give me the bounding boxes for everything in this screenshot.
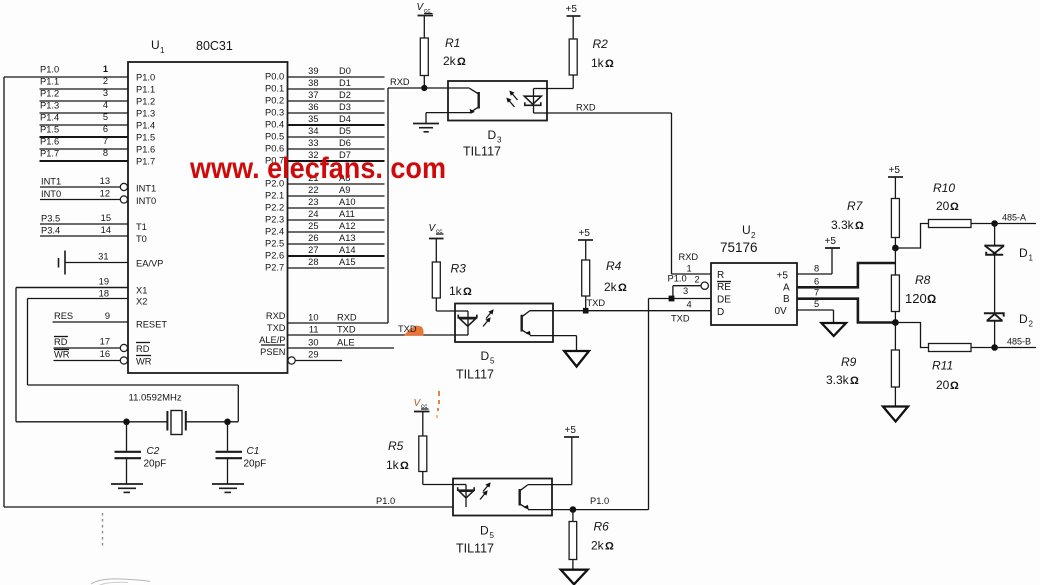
svg-text:INT0: INT0 <box>41 189 61 199</box>
diode D3 internal LED <box>524 89 547 114</box>
svg-text:D1: D1 <box>339 78 351 88</box>
resistor R1 2k <box>420 36 466 88</box>
node RXD junction at R1 bottom <box>388 77 448 91</box>
svg-text:P1.7: P1.7 <box>40 149 59 159</box>
svg-text:20pF: 20pF <box>244 459 267 470</box>
svg-text:P1.0: P1.0 <box>40 65 59 75</box>
U2 reference designator label <box>720 223 758 255</box>
svg-text:16: 16 <box>100 349 110 359</box>
svg-text:C1: C1 <box>247 446 260 457</box>
node X1 pin 19 <box>16 277 147 296</box>
svg-text:U: U <box>151 38 160 52</box>
wire P1.0 left spine vertical <box>3 77 5 507</box>
wire D1 to D2 <box>994 255 996 313</box>
transistor D5 bottom phototransistor <box>520 485 552 510</box>
faint arc artifact bottom left <box>91 579 150 585</box>
node 485-A terminal <box>991 213 1036 227</box>
svg-text:A9: A9 <box>339 185 350 195</box>
svg-text:+5: +5 <box>889 165 901 176</box>
svg-text:1: 1 <box>687 264 692 274</box>
resistor R11 20 ohm horizontal <box>895 323 994 393</box>
svg-text:D: D <box>481 349 490 363</box>
svg-text:Ω: Ω <box>950 201 959 213</box>
node junction R7 R8 R10 <box>892 245 899 275</box>
wire data bus D6 pin 33 <box>265 138 385 153</box>
op-amp D3 optocoupler TIL117 box <box>448 81 547 121</box>
svg-text:P0.3: P0.3 <box>265 108 284 118</box>
svg-text:R7: R7 <box>847 199 864 213</box>
svg-text:TXD: TXD <box>398 324 417 334</box>
wire U2 pin7 B to R8 bottom <box>797 288 895 323</box>
svg-text:15: 15 <box>101 213 111 223</box>
svg-text:12: 12 <box>100 189 110 199</box>
svg-text:2k: 2k <box>604 280 618 294</box>
wire U2 pin3 DE <box>649 286 712 302</box>
svg-text:U: U <box>742 223 751 237</box>
svg-text:RXD: RXD <box>337 313 357 323</box>
svg-text:D2: D2 <box>339 90 351 100</box>
svg-text:P2.4: P2.4 <box>265 227 284 237</box>
svg-text:R8: R8 <box>915 273 931 287</box>
svg-text:RESET: RESET <box>136 320 167 330</box>
node X2 pin 18 <box>28 289 148 307</box>
svg-text:P1.3: P1.3 <box>136 109 155 119</box>
svg-text:TIL117: TIL117 <box>456 542 494 556</box>
svg-text:18: 18 <box>99 289 109 299</box>
svg-text:TXD: TXD <box>671 314 690 324</box>
svg-text:PSEN: PSEN <box>260 347 285 357</box>
svg-text:A10: A10 <box>339 197 356 207</box>
svg-text:INT1: INT1 <box>136 184 156 194</box>
wire pin 3 P1.2 <box>40 88 156 107</box>
svg-text:D: D <box>488 128 497 142</box>
wire RXD from D3 to U2 pin1 <box>547 103 672 275</box>
svg-text:Ω: Ω <box>605 541 614 553</box>
svg-text:P1.7: P1.7 <box>136 157 155 167</box>
svg-text:Ω: Ω <box>457 56 466 68</box>
node INT1 pin 13 <box>40 176 156 194</box>
svg-text:+5: +5 <box>579 228 591 239</box>
node T1 pin 15 P3.5 <box>40 213 147 232</box>
svg-text:35: 35 <box>308 114 318 124</box>
svg-text:P0.2: P0.2 <box>265 96 284 106</box>
svg-text:7: 7 <box>103 136 108 146</box>
svg-text:Ω: Ω <box>950 380 959 392</box>
svg-text:17: 17 <box>100 337 110 347</box>
svg-text:Ω: Ω <box>605 58 614 70</box>
op-amp U2 75176 transceiver box <box>711 263 797 325</box>
svg-text:5: 5 <box>814 299 819 309</box>
label D5 bottom TIL117 <box>456 524 495 556</box>
svg-text:RXD: RXD <box>679 252 699 262</box>
svg-text:6: 6 <box>814 277 819 287</box>
svg-text:C2: C2 <box>147 446 160 457</box>
svg-text:8: 8 <box>814 264 819 274</box>
wire address bus A14 pin 27 <box>265 245 385 260</box>
svg-text:P2.2: P2.2 <box>265 203 284 213</box>
transistor D3 phototransistor <box>448 88 479 114</box>
svg-text:P0.4: P0.4 <box>265 120 284 130</box>
wire address bus A15 pin 28 <box>265 257 385 272</box>
svg-text:5: 5 <box>490 357 495 366</box>
wire pin 6 P1.5 <box>40 124 156 143</box>
resistor R10 20 ohm horizontal <box>895 181 994 248</box>
svg-text:14: 14 <box>101 225 111 235</box>
svg-text:38: 38 <box>308 78 318 88</box>
svg-text:D: D <box>717 307 724 318</box>
wire address bus A11 pin 24 <box>265 209 385 224</box>
power +5 above R7 <box>888 165 903 199</box>
svg-text:6: 6 <box>103 124 108 134</box>
svg-text:A13: A13 <box>339 233 356 243</box>
ground triangle under R9 <box>883 407 908 422</box>
svg-text:RD: RD <box>136 344 150 354</box>
svg-text:+5: +5 <box>825 236 837 247</box>
svg-text:X2: X2 <box>136 297 147 307</box>
svg-text:X1: X1 <box>136 286 147 296</box>
node 485-B terminal <box>991 337 1036 351</box>
svg-text:10: 10 <box>308 313 318 323</box>
wire pin 5 P1.4 <box>40 112 156 131</box>
svg-text:120: 120 <box>905 291 927 306</box>
svg-text:20pF: 20pF <box>144 459 167 470</box>
resistor R7 3.3k <box>831 199 899 249</box>
svg-text:D5: D5 <box>339 126 351 136</box>
svg-text:P1.5: P1.5 <box>136 133 155 143</box>
svg-text:1k: 1k <box>386 458 400 472</box>
svg-text:37: 37 <box>308 90 318 100</box>
svg-text:24: 24 <box>308 209 318 219</box>
svg-text:P1.0: P1.0 <box>376 496 395 506</box>
wire data bus D4 pin 35 <box>265 114 385 129</box>
node RESET pin 9 RES <box>53 311 168 330</box>
svg-text:A11: A11 <box>339 209 355 219</box>
svg-text:Ω: Ω <box>400 460 409 472</box>
svg-text:TIL117: TIL117 <box>456 368 494 382</box>
svg-text:Ω: Ω <box>855 220 864 232</box>
svg-text:P0.1: P0.1 <box>265 84 284 94</box>
svg-text:28: 28 <box>308 257 318 267</box>
svg-text:P1.0: P1.0 <box>136 73 155 83</box>
svg-text:36: 36 <box>308 102 318 112</box>
svg-text:D: D <box>1019 312 1028 326</box>
svg-text:TXD: TXD <box>337 325 356 335</box>
node junction R8 R9 R11 <box>892 319 899 350</box>
power Vcc symbol above R1 <box>417 2 434 38</box>
resistor R6 2k <box>569 520 614 570</box>
svg-text:Ω: Ω <box>618 282 627 294</box>
svg-text:D3: D3 <box>339 102 351 112</box>
svg-text:1: 1 <box>160 46 165 55</box>
wire data bus D2 pin 37 <box>265 90 385 105</box>
wire P1.0 bottom long run <box>4 496 453 507</box>
svg-text:R9: R9 <box>841 355 857 369</box>
svg-text:2: 2 <box>751 231 756 240</box>
svg-text:Ω: Ω <box>463 286 472 298</box>
svg-text:22: 22 <box>308 185 318 195</box>
svg-text:P1.0: P1.0 <box>668 274 687 284</box>
svg-text:P1.6: P1.6 <box>40 137 59 147</box>
svg-text:3.3k: 3.3k <box>826 373 850 387</box>
resistor R9 3.3k <box>826 350 899 407</box>
svg-text:D4: D4 <box>339 114 351 124</box>
node U2 pin2 RE bubble <box>668 274 709 290</box>
wire U2 pin4 D label <box>671 300 692 324</box>
svg-text:8: 8 <box>103 148 108 158</box>
svg-text:7: 7 <box>814 288 819 298</box>
wire pin 1 P1.0 <box>4 64 155 83</box>
svg-text:1: 1 <box>1029 254 1034 263</box>
resistor R2 1k <box>547 37 614 89</box>
wire address bus A12 pin 25 <box>265 221 385 236</box>
svg-text:4: 4 <box>687 300 692 310</box>
op-amp U1 80C31 MCU box <box>128 62 288 373</box>
node INT0 pin 12 <box>40 189 156 207</box>
svg-text:A14: A14 <box>339 245 356 255</box>
label D5 mid TIL117 <box>456 349 495 382</box>
wire data bus D7 pin 32 <box>265 150 385 165</box>
svg-text:25: 25 <box>308 221 318 231</box>
svg-text:T0: T0 <box>136 234 147 244</box>
svg-text:EA/VP: EA/VP <box>136 259 163 269</box>
svg-text:P1.4: P1.4 <box>136 121 155 131</box>
svg-text:P1.2: P1.2 <box>136 97 155 107</box>
light arrows inside D5 mid <box>483 309 494 326</box>
op-amp D5 bottom optocoupler TIL117 box <box>453 479 552 516</box>
svg-text:26: 26 <box>308 233 318 243</box>
node crystal right junction <box>224 419 231 426</box>
svg-text:30: 30 <box>308 338 318 348</box>
svg-text:RXD: RXD <box>390 77 410 87</box>
ground under C2 <box>111 484 143 492</box>
ground triangle at U2 pin5 0V <box>797 299 846 336</box>
svg-text:INT1: INT1 <box>41 177 61 187</box>
svg-text:P2.5: P2.5 <box>265 239 284 249</box>
svg-text:R10: R10 <box>933 181 955 195</box>
node T0 pin 14 P3.4 <box>40 225 147 244</box>
node TXD junction at R4 bottom <box>583 298 605 314</box>
svg-text:20: 20 <box>936 378 950 392</box>
svg-text:27: 27 <box>308 245 318 255</box>
wire P1.0 from D5 bottom to U2 <box>552 299 649 510</box>
svg-text:A15: A15 <box>339 257 356 267</box>
resistor R8 120 ohm <box>891 273 936 323</box>
U2 internal pin labels <box>717 270 790 318</box>
svg-text:A12: A12 <box>339 221 356 231</box>
wire ALE pin 30 stub <box>259 335 394 348</box>
capacitor C2 20pF <box>115 422 167 484</box>
node WR pin 16 active-low <box>54 349 152 367</box>
capacitor C1 20pF <box>216 422 267 484</box>
svg-text:D: D <box>480 524 489 538</box>
wire pin 7 P1.6 <box>40 136 156 155</box>
svg-text:Ω: Ω <box>850 375 859 387</box>
wire pin 2 P1.1 <box>40 76 156 95</box>
svg-text:1k: 1k <box>449 284 463 298</box>
svg-text:3: 3 <box>103 88 108 98</box>
wire address bus A13 pin 26 <box>265 233 385 248</box>
svg-text:11: 11 <box>309 325 319 335</box>
crystal Y1 11.0592MHz <box>129 393 186 435</box>
svg-text:31: 31 <box>98 252 108 262</box>
svg-text:www. elecfans. com: www. elecfans. com <box>189 152 446 185</box>
svg-text:B: B <box>783 294 790 305</box>
svg-text:P2.3: P2.3 <box>265 215 284 225</box>
svg-text:+5: +5 <box>777 271 789 282</box>
diode D2 protection <box>984 312 1034 348</box>
svg-text:TXD: TXD <box>267 323 286 333</box>
svg-text:33: 33 <box>308 138 318 148</box>
wire pin 4 P1.3 <box>40 100 156 119</box>
watermark www.elecfans.com <box>189 152 446 185</box>
node RD pin 17 active-low <box>54 337 151 355</box>
wire pin 8 P1.7 <box>40 148 156 167</box>
svg-text:P2.1: P2.1 <box>265 191 284 201</box>
power +5 at U2 pin8 <box>797 236 840 274</box>
svg-text:3.3k: 3.3k <box>831 218 855 232</box>
node crystal left junction <box>123 419 130 426</box>
svg-text:P3.4: P3.4 <box>41 226 60 236</box>
ground at D3 emitter <box>413 113 448 132</box>
ground under C1 <box>212 484 244 492</box>
svg-text:P1.6: P1.6 <box>136 145 155 155</box>
label D3 TIL117 <box>463 128 502 159</box>
svg-text:DE: DE <box>717 295 731 306</box>
diode D5 mid internal LED <box>455 311 477 335</box>
ground triangle at D5 mid emitter <box>553 336 589 367</box>
wire address bus A10 pin 23 <box>265 197 385 212</box>
wire U2 pin1 R input <box>672 252 712 274</box>
svg-text:1k: 1k <box>591 56 605 70</box>
svg-text:TIL117: TIL117 <box>463 145 501 159</box>
svg-text:P2.7: P2.7 <box>265 263 284 273</box>
svg-text:+5: +5 <box>565 425 577 436</box>
light arrows inside D5 bottom <box>480 482 491 499</box>
svg-text:34: 34 <box>308 126 318 136</box>
wire data bus D5 pin 34 <box>265 126 385 141</box>
svg-text:P0.0: P0.0 <box>265 72 284 82</box>
svg-text:RXD: RXD <box>576 103 596 113</box>
resistor R4 2k <box>582 259 627 311</box>
svg-text:INT0: INT0 <box>136 196 156 206</box>
power +5 at D5 bottom collector <box>552 425 579 485</box>
svg-text:ALE: ALE <box>337 338 355 348</box>
U1 reference designator label <box>151 38 233 55</box>
svg-text:39: 39 <box>308 66 318 76</box>
svg-text:RXD: RXD <box>266 311 286 321</box>
svg-text:P0.5: P0.5 <box>265 132 284 142</box>
wire X2 loop to crystal right <box>28 299 239 422</box>
svg-text:2: 2 <box>695 275 700 285</box>
svg-text:RD: RD <box>54 337 68 347</box>
svg-text:9: 9 <box>105 311 110 321</box>
svg-text:WR: WR <box>136 357 152 367</box>
svg-text:29: 29 <box>308 350 318 360</box>
svg-text:+5: +5 <box>566 4 578 15</box>
svg-text:3: 3 <box>497 136 502 145</box>
wire TXD pin 11 to D5 opto <box>267 323 455 335</box>
svg-text:5: 5 <box>490 531 495 540</box>
node junction at R6 top <box>570 506 577 521</box>
svg-text:R2: R2 <box>593 37 609 51</box>
svg-text:D0: D0 <box>339 66 351 76</box>
svg-text:Ω: Ω <box>927 294 936 306</box>
svg-text:R1: R1 <box>445 36 460 50</box>
svg-text:0V: 0V <box>775 306 788 317</box>
svg-text:4: 4 <box>103 100 108 110</box>
svg-text:2: 2 <box>1029 320 1034 329</box>
transistor D5 mid phototransistor <box>522 311 553 336</box>
svg-text:RES: RES <box>54 311 73 321</box>
svg-text:R11: R11 <box>932 359 953 373</box>
wire RXD pin 10 to D3 <box>266 88 388 323</box>
svg-text:P1.4: P1.4 <box>40 113 59 123</box>
resistor R5 1k <box>386 436 453 485</box>
light arrows inside D3 <box>506 91 517 108</box>
svg-text:485-B: 485-B <box>1007 337 1031 347</box>
svg-text:R6: R6 <box>594 520 610 534</box>
svg-text:A: A <box>783 283 790 294</box>
ground triangle under R6 <box>561 570 588 585</box>
svg-text:P2.6: P2.6 <box>265 251 284 261</box>
wire data bus D3 pin 36 <box>265 102 385 117</box>
svg-text:2k: 2k <box>443 54 457 68</box>
wire data bus D1 pin 38 <box>265 78 385 93</box>
svg-text:13: 13 <box>100 176 110 186</box>
svg-text:1: 1 <box>103 64 108 74</box>
net label TXD orange artifact <box>398 324 424 336</box>
dotted artifact line bottom left <box>102 513 104 546</box>
wire address bus A9 pin 22 <box>265 185 385 200</box>
svg-text:23: 23 <box>308 197 318 207</box>
svg-text:D: D <box>1019 246 1028 260</box>
diode D1 protection <box>984 224 1033 263</box>
svg-text:TXD: TXD <box>587 298 606 308</box>
wire TXD from D5 mid to U2 pin4 D <box>553 310 711 312</box>
svg-text:WR: WR <box>54 350 70 360</box>
svg-text:11.0592MHz: 11.0592MHz <box>129 393 182 404</box>
wire U2 pin6 A to R8 top <box>797 263 895 287</box>
svg-text:P1.5: P1.5 <box>40 125 59 135</box>
svg-text:R: R <box>717 270 724 281</box>
svg-text:P1.0: P1.0 <box>590 496 609 506</box>
node PSEN pin 29 with bubble <box>260 345 342 364</box>
svg-text:R4: R4 <box>606 259 622 273</box>
wire data bus D0 pin 39 <box>265 66 385 81</box>
diode D5 bottom internal LED <box>453 485 474 508</box>
svg-text:19: 19 <box>99 277 109 287</box>
power Vcc symbol above R3 <box>429 223 444 262</box>
svg-text:T1: T1 <box>136 222 147 232</box>
svg-text:RE: RE <box>717 282 731 293</box>
svg-text:P1.2: P1.2 <box>40 89 59 99</box>
svg-text:P3.5: P3.5 <box>41 214 60 224</box>
resistor R3 1k <box>432 262 472 312</box>
svg-text:80C31: 80C31 <box>196 39 233 53</box>
svg-text:75176: 75176 <box>720 240 758 255</box>
node EA/VP pin 31 with supply bars <box>59 251 164 275</box>
svg-text:485-A: 485-A <box>1002 213 1026 223</box>
svg-text:P1.1: P1.1 <box>136 85 155 95</box>
wire X1 to crystal left <box>16 288 167 422</box>
power +5 above R2 <box>566 4 581 39</box>
svg-text:2: 2 <box>103 76 108 86</box>
svg-text:R5: R5 <box>388 439 404 453</box>
power +5 above R4 <box>578 228 593 260</box>
svg-text:2k: 2k <box>591 539 605 553</box>
svg-text:5: 5 <box>103 112 108 122</box>
svg-text:20: 20 <box>936 199 950 213</box>
